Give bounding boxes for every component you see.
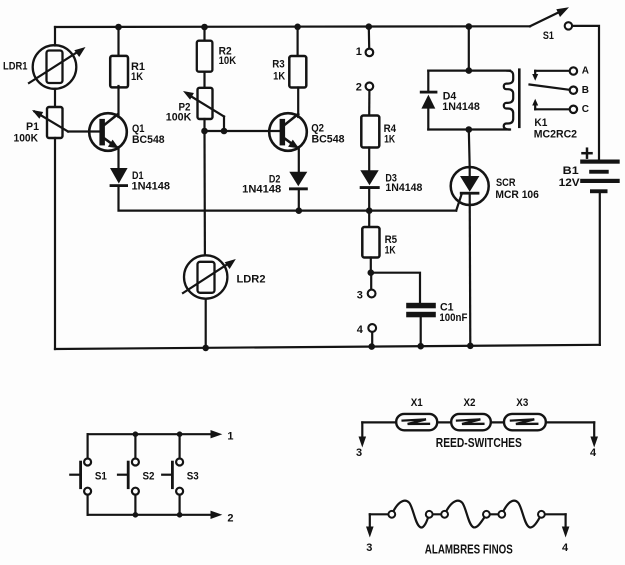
svg-text:1: 1 <box>356 46 362 58</box>
pushbutton S2 <box>118 434 155 515</box>
node rail2 S2 <box>133 512 139 518</box>
diode D1 <box>110 168 170 192</box>
svg-text:BC548: BC548 <box>132 134 165 146</box>
node terminal1 top <box>366 23 373 30</box>
svg-text:MC2RC2: MC2RC2 <box>534 129 577 141</box>
svg-text:10K: 10K <box>219 55 237 67</box>
pushbutton S3 <box>162 434 199 515</box>
reed block: left drop 3 <box>361 422 363 439</box>
potentiometer P2 <box>166 88 224 131</box>
fine wires: bead 3 <box>441 511 448 518</box>
node P2 wiper join <box>221 128 228 135</box>
fine wires: bead 4 <box>483 511 490 518</box>
node relay branch top <box>466 23 473 30</box>
resistor R1 <box>110 27 145 117</box>
node P2 bottom <box>201 128 208 135</box>
diode D2 <box>242 172 308 210</box>
capacitor C1 <box>406 302 467 347</box>
wire Q2 emitter to D2 <box>298 147 300 172</box>
svg-text:S2: S2 <box>143 471 155 483</box>
node R5 bottom junction <box>368 269 375 276</box>
svg-text:R3: R3 <box>272 59 285 71</box>
fine wires: bead 1 <box>388 511 395 518</box>
pushbutton S1 <box>70 434 107 515</box>
svg-text:MCR 106: MCR 106 <box>495 189 539 201</box>
wire P1 wiper to Q1 base <box>68 130 99 132</box>
svg-text:X2: X2 <box>464 397 476 409</box>
pushbutton block: wire rail 2 <box>88 514 211 516</box>
svg-text:1N4148: 1N4148 <box>385 182 422 194</box>
svg-text:2: 2 <box>356 81 362 93</box>
svg-text:REED-SWITCHES: REED-SWITCHES <box>436 435 522 450</box>
node D2 bottom <box>296 207 303 214</box>
node relay box top <box>466 67 473 74</box>
relay contact A <box>532 66 589 81</box>
svg-text:1N4148: 1N4148 <box>442 101 480 113</box>
wire S1 to right rail <box>572 26 599 160</box>
svg-text:LDR2: LDR2 <box>237 274 266 286</box>
svg-text:4: 4 <box>562 542 569 554</box>
wire LDR2 to ground bus <box>205 299 207 349</box>
fine wires: bead 2 <box>426 511 433 518</box>
LDR1 <box>3 45 86 89</box>
resistor R3 <box>272 27 306 117</box>
resistor R2 <box>197 27 236 88</box>
svg-text:100K: 100K <box>166 112 192 124</box>
svg-text:P1: P1 <box>26 121 39 133</box>
svg-text:B: B <box>582 85 589 96</box>
terminal 2 <box>356 81 373 116</box>
svg-text:3: 3 <box>357 290 363 302</box>
fine wires: bead 5 <box>498 511 505 518</box>
SCR U1 MCR106 <box>451 167 539 211</box>
node D3 bottom <box>366 207 373 214</box>
wire LDR1 to P1 <box>54 89 56 107</box>
svg-text:2: 2 <box>227 512 233 524</box>
wire relay box bottom <box>428 128 510 130</box>
node rail2 S3 <box>177 512 183 518</box>
svg-text:LDR1: LDR1 <box>3 61 28 73</box>
svg-text:3: 3 <box>366 542 372 554</box>
svg-text:X1: X1 <box>411 397 423 409</box>
svg-text:1: 1 <box>227 431 233 443</box>
svg-text:C: C <box>582 104 589 115</box>
svg-text:X3: X3 <box>516 397 528 409</box>
resistor R5 <box>362 211 397 273</box>
relay contact B armature <box>530 85 589 97</box>
svg-text:1K: 1K <box>384 133 395 145</box>
reed block: right drop 4 <box>593 422 595 439</box>
LDR2 <box>183 255 266 298</box>
wire SCR cathode to ground bus <box>469 195 472 346</box>
svg-text:12V: 12V <box>559 177 581 189</box>
diode D3 <box>360 170 423 210</box>
resistor R4 <box>361 116 397 171</box>
svg-text:1N4148: 1N4148 <box>132 180 171 192</box>
terminal 4 <box>357 324 376 347</box>
svg-text:S3: S3 <box>187 471 199 483</box>
svg-text:BC548: BC548 <box>312 134 345 146</box>
node rail1 S2 <box>133 431 139 437</box>
node R3 top <box>294 24 301 31</box>
transistor Q1 <box>89 113 164 151</box>
fine wires: bead 6 <box>538 511 545 518</box>
wire base node down to LDR2 <box>203 131 206 255</box>
wire junction to C1 <box>371 273 420 303</box>
potentiometer P1 <box>14 107 69 144</box>
svg-text:4: 4 <box>357 324 364 336</box>
wire relay box top <box>428 69 510 71</box>
terminal 3 <box>357 273 376 302</box>
diode D4 <box>420 71 480 130</box>
svg-text:SCR: SCR <box>496 177 516 189</box>
wire gate bus <box>119 187 457 211</box>
svg-text:K1: K1 <box>534 117 547 129</box>
terminal 1 <box>356 27 373 58</box>
svg-text:3: 3 <box>356 447 362 459</box>
battery B1 <box>559 149 620 194</box>
wire top bus <box>55 25 530 28</box>
wire relay box to SCR <box>468 130 471 168</box>
node bus C1 <box>417 343 424 350</box>
svg-text:100K: 100K <box>14 132 39 144</box>
node rail1 S3 <box>177 431 183 437</box>
pushbutton block: wire rail 1 <box>88 433 211 435</box>
svg-text:1K: 1K <box>385 244 396 256</box>
relay K1 coil <box>504 70 577 141</box>
svg-text:S1: S1 <box>543 30 554 42</box>
transistor Q2 <box>269 113 344 151</box>
switch S1 <box>530 7 572 42</box>
reed switch X2 <box>451 397 491 430</box>
svg-text:S1: S1 <box>95 471 107 483</box>
wire left column top <box>54 27 56 46</box>
fine wires: left drop 3 <box>369 514 371 529</box>
node R1 top <box>115 24 122 31</box>
svg-text:4: 4 <box>590 447 597 459</box>
node bus LDR2 <box>202 345 209 352</box>
relay contact C <box>532 99 589 115</box>
svg-text:ALAMBRES FINOS: ALAMBRES FINOS <box>425 542 513 557</box>
svg-text:B1: B1 <box>563 165 579 177</box>
svg-text:1K: 1K <box>131 71 143 83</box>
wire P2 bottom / base row to Q2 <box>203 119 205 131</box>
svg-text:1N4148: 1N4148 <box>242 183 281 195</box>
fine wires: right drop 4 <box>564 514 566 529</box>
node R2 top <box>201 24 208 31</box>
svg-text:100nF: 100nF <box>439 312 467 324</box>
wire battery to ground bus <box>599 193 601 345</box>
reed switch X3 <box>504 397 546 430</box>
wire top bus to relay box <box>468 27 470 71</box>
fine wires: wavy wire <box>370 501 566 528</box>
wire P1 bottom to ground bus <box>54 138 56 349</box>
node bus terminal4 <box>368 343 375 350</box>
reed switch X1 <box>396 397 437 430</box>
wire Q1 emitter to D1 <box>117 147 119 169</box>
wire bottom ground bus <box>55 345 600 349</box>
node bus SCR <box>467 343 474 350</box>
svg-text:1K: 1K <box>273 71 285 83</box>
reed block: wire <box>362 421 594 423</box>
svg-text:A: A <box>582 66 589 77</box>
node relay box bottom <box>466 126 473 133</box>
